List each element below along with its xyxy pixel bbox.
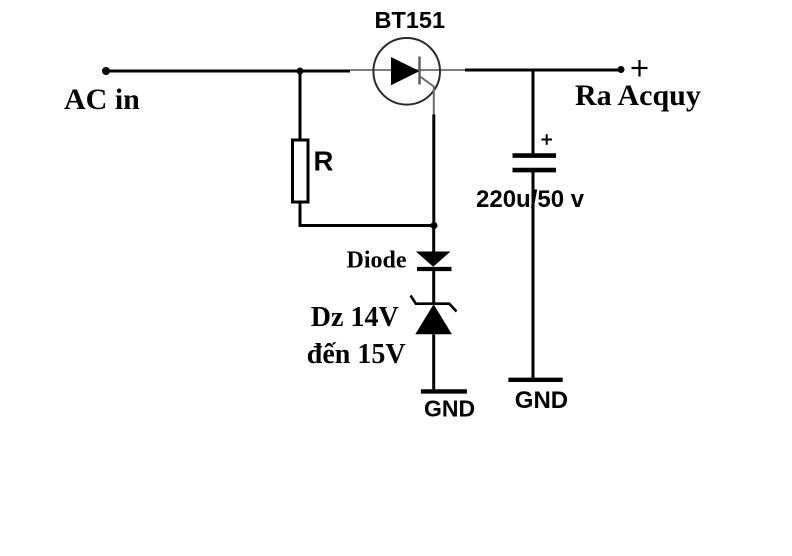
svg-text:BT151: BT151 xyxy=(375,7,446,33)
diode D1 xyxy=(416,252,452,270)
ground: zener ground bar xyxy=(421,389,467,393)
svg-text:R: R xyxy=(314,145,334,176)
wire: resistor bottom to gate junction xyxy=(300,202,434,226)
svg-text:GND: GND xyxy=(515,387,568,414)
svg-text:Ra Acquy: Ra Acquy xyxy=(575,79,701,112)
node: AC input terminal xyxy=(102,67,110,75)
svg-text:220u/50 v: 220u/50 v xyxy=(476,186,585,213)
label + output plus xyxy=(632,60,648,77)
ground: capacitor ground bar xyxy=(508,378,562,382)
wire: diode to zener xyxy=(432,271,435,304)
wire: zener to ground xyxy=(432,334,435,389)
label + capacitor polarity xyxy=(542,134,553,145)
svg-text:Dz 14V: Dz 14V xyxy=(311,302,399,333)
node: output terminal xyxy=(618,66,625,73)
svg-text:Diode: Diode xyxy=(347,248,407,274)
wire: AC input to junction xyxy=(106,70,350,73)
wire: gate lead of SCR xyxy=(420,77,434,115)
capacitor C1 220u/50v xyxy=(513,156,557,171)
wire: capacitor branch from main wire xyxy=(532,69,535,154)
svg-text:AC in: AC in xyxy=(64,83,140,116)
wire: resistor branch down from main wire xyxy=(299,71,302,140)
node: gate junction xyxy=(431,222,438,229)
wire: capacitor to ground xyxy=(532,172,535,378)
wire: junction to diode xyxy=(432,226,435,253)
svg-text:GND: GND xyxy=(424,396,475,422)
wire: SCR to output xyxy=(465,69,621,72)
node: junction at resistor top xyxy=(297,68,304,75)
zener diode Dz xyxy=(411,296,457,335)
svg-text:đến 15V: đến 15V xyxy=(307,339,406,370)
wire: through SCR (gray) xyxy=(350,69,465,71)
thyristor U1 BT151 xyxy=(373,38,440,105)
resistor R xyxy=(293,140,309,202)
